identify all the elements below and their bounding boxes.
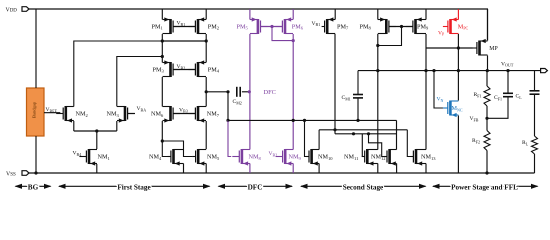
- wire NM3 gate stub: [128, 113, 135, 115]
- wire VDD to bandgap: [35, 9, 37, 88]
- svg-text:NM7: NM7: [207, 111, 220, 118]
- transistor PM6: [275, 17, 303, 34]
- transistor NM4: [149, 149, 184, 166]
- wire PM1 drain to PM3: [161, 34, 163, 63]
- svg-text:PM5: PM5: [237, 23, 249, 30]
- transistor PM9: [406, 17, 429, 34]
- svg-text:PM6: PM6: [292, 23, 304, 30]
- svg-text:PM8: PM8: [360, 23, 372, 30]
- svg-text:MP: MP: [489, 46, 497, 52]
- resistor RF2: [472, 131, 490, 151]
- svg-text:PM4: PM4: [208, 66, 220, 73]
- transistor PM4: [188, 60, 219, 77]
- wire NM4 diode tie: [162, 141, 192, 157]
- wire NM7 source down: [205, 121, 207, 149]
- node NM9 drain on bus: [292, 119, 295, 122]
- svg-text:DFC: DFC: [248, 184, 263, 192]
- svg-text:NM2: NM2: [76, 111, 88, 118]
- svg-text:PM9: PM9: [417, 23, 429, 30]
- svg-text:NM10: NM10: [318, 154, 333, 161]
- transistor PM7: [322, 17, 349, 34]
- node VB3: [179, 107, 188, 113]
- wire RL to VSS: [534, 154, 536, 173]
- transistor PM5: [237, 17, 268, 34]
- svg-text:VB3: VB3: [179, 107, 188, 113]
- wire PM8 source: [377, 9, 379, 20]
- svg-text:NM11: NM11: [344, 154, 358, 161]
- wire NM10 gate feed: [305, 120, 307, 156]
- svg-text:NM5: NM5: [207, 154, 220, 161]
- transistor PM2: [188, 17, 219, 34]
- wire RF1 to RF2: [486, 106, 488, 131]
- wire PM5 drain down to NM8: [249, 34, 251, 150]
- wire NM1 drain: [96, 131, 98, 149]
- wire CM1 bottom: [357, 98, 359, 121]
- transistor NM12: [371, 149, 397, 166]
- svg-text:VDD: VDD: [6, 7, 18, 13]
- svg-text:PM1: PM1: [152, 23, 163, 30]
- wire RF1 top: [486, 71, 488, 86]
- svg-text:NM9: NM9: [289, 154, 302, 161]
- resistor RF1: [474, 86, 491, 106]
- svg-text:BG: BG: [28, 184, 39, 192]
- node VREF: [46, 107, 58, 113]
- svg-text:VB4: VB4: [73, 151, 82, 157]
- wire PM2 source: [205, 9, 207, 20]
- wire CL to RL: [534, 94, 536, 136]
- svg-text:NM12: NM12: [371, 154, 385, 161]
- transistor NM7: [188, 106, 219, 123]
- wire PM9 drain down: [424, 34, 427, 72]
- VDD power pin: [6, 7, 30, 14]
- svg-text:VB1: VB1: [312, 21, 321, 27]
- wire PM2 drain to PM4: [205, 34, 207, 63]
- wire PM8 diode tie: [376, 27, 401, 48]
- transistor PM8: [360, 17, 396, 34]
- svg-text:RF2: RF2: [472, 138, 480, 144]
- wire NM4 gate feed: [162, 141, 167, 157]
- wire first stage output node: [206, 90, 229, 93]
- svg-text:CF1: CF1: [494, 95, 502, 101]
- wire NM1 source: [96, 164, 98, 173]
- svg-text:NM1: NM1: [98, 154, 110, 161]
- svg-text:DFC: DFC: [264, 89, 276, 96]
- svg-text:Bandgap: Bandgap: [32, 101, 37, 118]
- transistor NM9: [276, 149, 302, 166]
- wire NM8 source: [249, 164, 251, 174]
- wire PM6 diode tie: [272, 27, 295, 43]
- wire RF2 to VSS: [485, 151, 488, 175]
- wire MP drain down: [486, 56, 489, 73]
- wire node down to bus: [226, 92, 229, 122]
- transistor MPC: [443, 17, 469, 34]
- node VB1: [177, 21, 186, 27]
- transistor NM3: [107, 106, 135, 123]
- transistor NM8: [232, 149, 261, 166]
- transistor NM6: [151, 106, 180, 123]
- svg-text:Power Stage and FFL: Power Stage and FFL: [451, 184, 518, 192]
- node VB4: [73, 151, 82, 157]
- capacitor CL: [516, 91, 540, 100]
- wire PM6 drain down to NM9: [292, 41, 294, 150]
- svg-text:First Stage: First Stage: [117, 184, 150, 192]
- wire PM9 to NM13 drain: [425, 71, 427, 150]
- transistor MNC: [443, 101, 463, 118]
- wire NM5 source: [205, 164, 207, 174]
- svg-text:Second Stage: Second Stage: [343, 184, 384, 192]
- transistor NM1: [79, 149, 109, 166]
- node VOUT: [501, 61, 514, 72]
- wire NM6 source down: [161, 121, 164, 143]
- dimension Power Stage: [432, 184, 539, 192]
- wire PM3 drain down: [161, 77, 163, 107]
- svg-text:RF1: RF1: [474, 92, 482, 98]
- svg-text:VN: VN: [437, 97, 444, 103]
- svg-text:NM8: NM8: [249, 154, 262, 161]
- node PM1-PM2 drain tie: [161, 39, 208, 42]
- wire PM9 source: [425, 9, 427, 20]
- svg-text:RL: RL: [522, 140, 529, 146]
- wire NM13 source: [425, 164, 427, 174]
- wire NM6 NM7 gates: [173, 113, 195, 115]
- wire PM7 source: [334, 9, 336, 20]
- dimension First Stage: [58, 184, 211, 192]
- transistor PM3: [153, 60, 181, 77]
- wire MPC source: [457, 9, 459, 20]
- wire NM3 drain up: [117, 55, 164, 107]
- wire MPC node to VOUT line: [457, 48, 460, 72]
- node VN: [437, 97, 444, 103]
- svg-text:VOUT: VOUT: [501, 61, 514, 67]
- node VB2: [177, 64, 186, 70]
- wire VREF to NM2 gate: [44, 112, 60, 114]
- svg-text:VFB: VFB: [470, 116, 479, 122]
- svg-text:PM7: PM7: [337, 23, 349, 30]
- wire MPC drain down: [457, 34, 459, 48]
- wire CF1 to VFB: [487, 97, 508, 119]
- wire tail node: [74, 121, 117, 133]
- wire PM6 drain: [292, 34, 294, 41]
- wire output line: [358, 70, 541, 72]
- wire PM1 source: [161, 9, 163, 20]
- transistor MP: [472, 39, 497, 56]
- wire gate drive MP: [426, 46, 473, 49]
- wire bandgap to VSS: [34, 136, 37, 175]
- svg-text:CM2: CM2: [233, 99, 242, 105]
- wire PM6 source: [292, 9, 294, 20]
- transistor NM2: [56, 106, 88, 123]
- bandgap block: [27, 88, 45, 136]
- wire NM10 source: [318, 164, 320, 174]
- wire PM5 source: [249, 9, 251, 20]
- resistor RL: [522, 136, 538, 154]
- wire CL top: [534, 71, 536, 91]
- dimension BG: [15, 184, 52, 192]
- transistor NM10: [306, 149, 333, 166]
- wire NM9 source: [292, 164, 294, 174]
- wire PM8 PM9 gates: [389, 25, 413, 28]
- transistor NM13: [410, 149, 436, 166]
- svg-text:NM4: NM4: [149, 154, 162, 161]
- svg-text:NM6: NM6: [151, 111, 164, 118]
- wire MNC source down: [457, 116, 459, 174]
- wire VDD corner to MP source: [487, 9, 489, 41]
- svg-text:NM3: NM3: [107, 111, 120, 118]
- wire mirror bus B: [335, 132, 397, 135]
- transistor NM11: [344, 149, 378, 166]
- wire NM12 gate feed: [369, 134, 385, 157]
- VDD rail wire: [29, 8, 488, 10]
- svg-text:VB2: VB2: [269, 151, 278, 157]
- svg-text:PM3: PM3: [153, 66, 165, 73]
- svg-text:CL: CL: [516, 94, 523, 100]
- wire PM8 drain to NM11: [377, 71, 379, 150]
- wire NM11 gate feed: [361, 134, 363, 157]
- wire CF1 top: [507, 71, 509, 94]
- node VFB: [470, 116, 489, 122]
- node VB1 second: [312, 21, 321, 27]
- wire input bus: [228, 119, 397, 122]
- capacitor CM2: [233, 87, 242, 106]
- wire CM1 top: [357, 71, 359, 95]
- wire NM2 drain up: [74, 41, 163, 107]
- wire CM2 to DFC: [242, 90, 251, 93]
- VSS rail wire: [29, 172, 535, 174]
- capacitor CM1: [342, 95, 364, 102]
- svg-text:MNC: MNC: [452, 105, 463, 112]
- dimension DFC: [218, 184, 294, 192]
- wire PM5 PM6 gates: [261, 25, 283, 28]
- wire NM8 gate feed: [228, 120, 231, 156]
- wire MNC drain up: [457, 71, 459, 101]
- svg-text:PM2: PM2: [208, 23, 219, 30]
- capacitor CF1: [494, 93, 513, 101]
- wire NM4 source: [183, 164, 185, 174]
- svg-text:VP: VP: [438, 30, 445, 36]
- node VB5: [269, 151, 278, 157]
- wire PM3 PM4 gates: [173, 69, 195, 71]
- wire PM4 drain down: [205, 77, 208, 107]
- transistor NM5: [192, 149, 220, 166]
- wire MNC gate feed: [432, 69, 443, 108]
- svg-text:VSS: VSS: [6, 171, 16, 177]
- VSS power pin: [6, 171, 29, 178]
- wire PM8 drain down: [376, 34, 379, 72]
- svg-text:NM13: NM13: [421, 154, 436, 161]
- wire PM7 drain down: [333, 34, 336, 131]
- svg-text:CM1: CM1: [342, 95, 351, 101]
- wire PM1 PM2 gates: [173, 26, 195, 28]
- label DFC: [264, 89, 276, 96]
- wire NM12 source: [396, 164, 398, 174]
- wire NM11 source: [377, 164, 379, 174]
- node VP: [438, 30, 445, 36]
- dimension Second Stage: [300, 184, 427, 192]
- svg-text:VBA: VBA: [137, 106, 147, 112]
- transistor PM1: [152, 17, 181, 34]
- svg-text:MPC: MPC: [458, 23, 469, 30]
- node VBA: [137, 106, 147, 112]
- wire mirror gate bus A: [319, 130, 411, 157]
- wire bus corner to NM12 drain: [396, 120, 398, 149]
- output terminal: [541, 69, 548, 73]
